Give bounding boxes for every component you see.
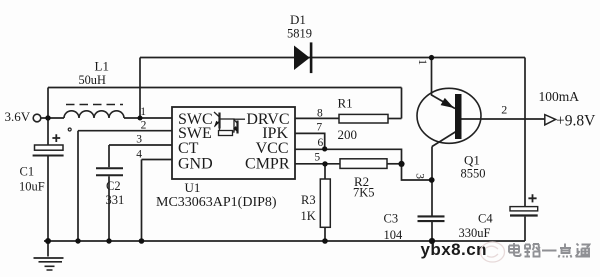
svg-text:1K: 1K bbox=[301, 209, 316, 223]
svg-text:3: 3 bbox=[414, 173, 426, 179]
svg-text:Q1: Q1 bbox=[464, 153, 480, 168]
svg-text:CT: CT bbox=[178, 140, 199, 157]
svg-text:330uF: 330uF bbox=[459, 226, 491, 240]
svg-text:1: 1 bbox=[416, 59, 428, 65]
svg-text:R3: R3 bbox=[301, 193, 316, 207]
svg-text:5: 5 bbox=[314, 152, 320, 164]
svg-text:C1: C1 bbox=[20, 164, 35, 178]
svg-text:D1: D1 bbox=[290, 12, 306, 27]
svg-text:8: 8 bbox=[317, 108, 323, 120]
svg-text:50uH: 50uH bbox=[79, 73, 106, 87]
svg-text:ybx8.cn: ybx8.cn bbox=[421, 240, 487, 259]
svg-text:104: 104 bbox=[384, 228, 404, 242]
svg-text:R1: R1 bbox=[338, 96, 353, 111]
svg-text:C3: C3 bbox=[384, 212, 399, 226]
svg-text:7K5: 7K5 bbox=[353, 186, 375, 200]
svg-text:C2: C2 bbox=[106, 179, 121, 193]
svg-text:CMPR: CMPR bbox=[245, 156, 290, 173]
svg-text:2: 2 bbox=[141, 120, 147, 132]
svg-text:MC33063AP1(DIP8): MC33063AP1(DIP8) bbox=[156, 195, 277, 210]
svg-text:200: 200 bbox=[338, 127, 358, 142]
svg-text:5819: 5819 bbox=[287, 26, 312, 40]
svg-text:U1: U1 bbox=[185, 180, 201, 195]
svg-text:7: 7 bbox=[316, 122, 322, 134]
svg-text:2: 2 bbox=[501, 103, 507, 117]
svg-text:8550: 8550 bbox=[461, 166, 486, 180]
svg-text:10uF: 10uF bbox=[19, 179, 45, 193]
svg-text:4: 4 bbox=[136, 148, 142, 160]
svg-text:100mA: 100mA bbox=[539, 89, 580, 104]
svg-text:1: 1 bbox=[140, 106, 146, 118]
svg-text:VCC: VCC bbox=[256, 140, 289, 157]
svg-text:+9.8V: +9.8V bbox=[556, 112, 596, 129]
svg-text:C4: C4 bbox=[478, 211, 493, 225]
svg-text:6: 6 bbox=[318, 137, 324, 149]
svg-text:3: 3 bbox=[136, 134, 142, 146]
svg-text:GND: GND bbox=[178, 156, 213, 173]
svg-text:331: 331 bbox=[106, 193, 125, 207]
svg-text:L1: L1 bbox=[95, 58, 109, 73]
svg-text:3.6V: 3.6V bbox=[5, 109, 31, 124]
